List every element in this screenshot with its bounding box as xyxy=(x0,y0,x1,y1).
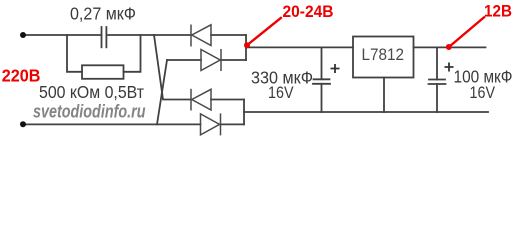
svg-text:16V: 16V xyxy=(470,83,496,102)
svg-text:500 кОм 0,5Вт: 500 кОм 0,5Вт xyxy=(39,82,144,102)
svg-text:20-24В: 20-24В xyxy=(283,2,334,21)
svg-text:0,27 мкФ: 0,27 мкФ xyxy=(70,3,136,23)
svg-text:16V: 16V xyxy=(268,83,294,102)
svg-text:L7812: L7812 xyxy=(362,46,405,64)
svg-text:12В: 12В xyxy=(484,1,512,20)
svg-text:svetodiodinfo.ru: svetodiodinfo.ru xyxy=(33,101,146,121)
svg-text:220В: 220В xyxy=(2,66,41,86)
